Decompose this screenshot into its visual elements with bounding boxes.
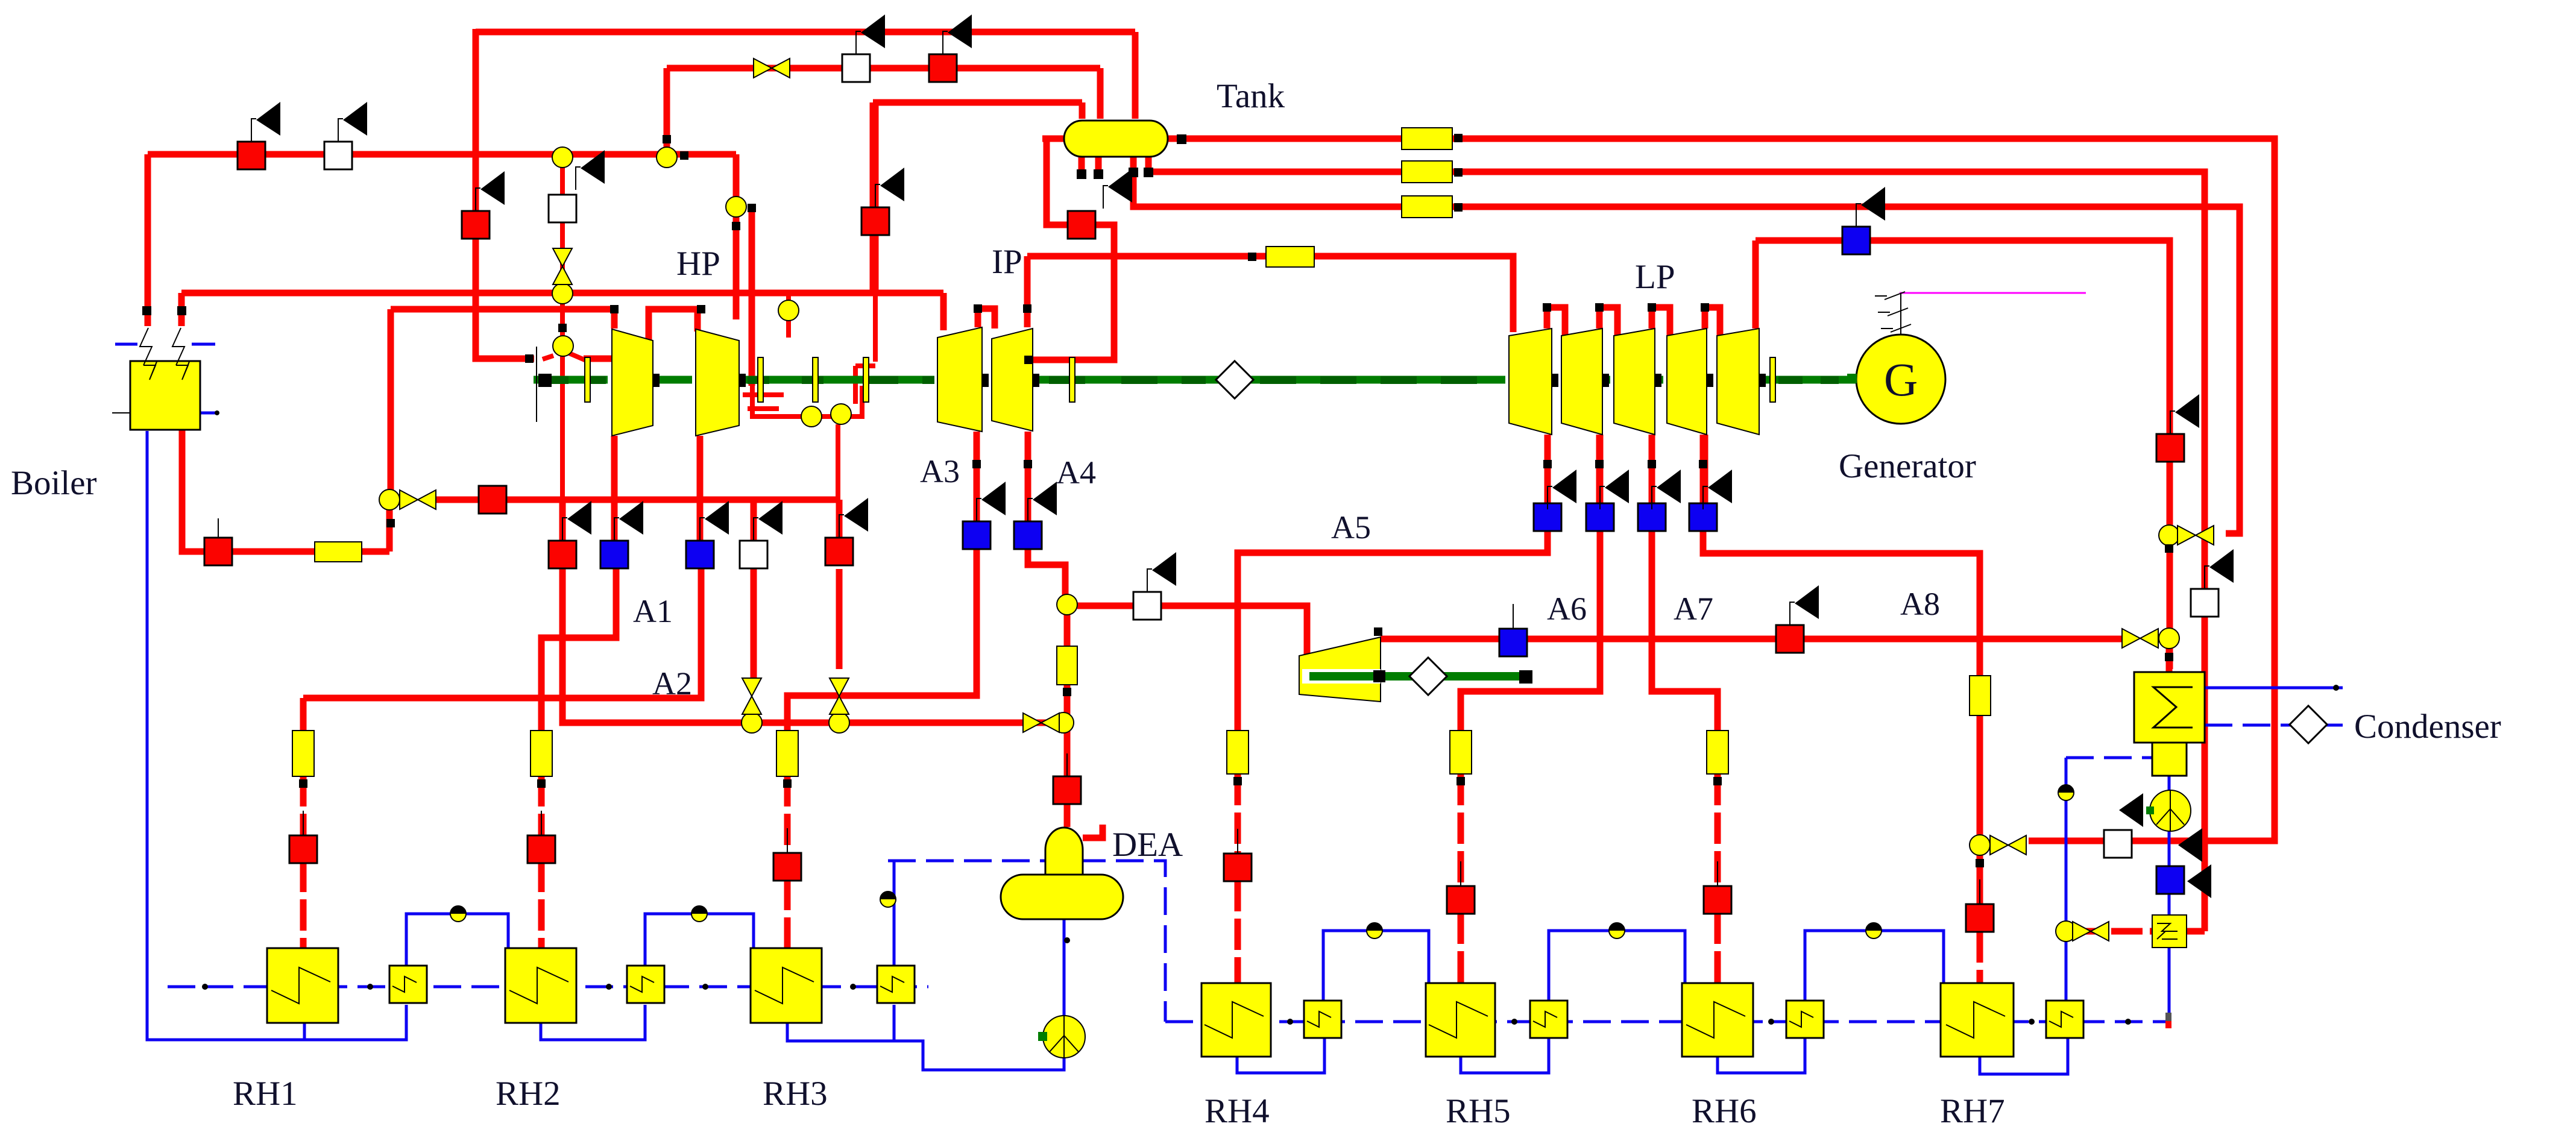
svg-text:RH7: RH7	[1940, 1092, 2005, 1130]
svg-text:RH4: RH4	[1205, 1092, 1270, 1130]
svg-text:RH5: RH5	[1446, 1092, 1511, 1130]
svg-text:Generator: Generator	[1839, 447, 1976, 485]
svg-text:A2: A2	[652, 665, 692, 702]
svg-text:Tank: Tank	[1217, 77, 1285, 115]
svg-text:RH1: RH1	[233, 1075, 298, 1113]
svg-text:DEA: DEA	[1112, 826, 1183, 864]
svg-text:HP: HP	[676, 245, 720, 283]
svg-text:A8: A8	[1900, 586, 1940, 622]
svg-text:A7: A7	[1674, 591, 1713, 627]
svg-text:LP: LP	[1635, 258, 1675, 296]
svg-text:A5: A5	[1331, 509, 1371, 545]
svg-text:G: G	[1884, 353, 1918, 406]
svg-text:A6: A6	[1547, 591, 1587, 627]
svg-text:IP: IP	[992, 243, 1022, 281]
svg-text:RH2: RH2	[496, 1075, 561, 1113]
svg-text:Boiler: Boiler	[11, 464, 96, 502]
svg-text:A3: A3	[920, 453, 960, 489]
svg-text:A4: A4	[1056, 454, 1096, 491]
svg-text:Condenser: Condenser	[2354, 708, 2501, 746]
svg-text:RH3: RH3	[763, 1075, 828, 1113]
svg-text:RH6: RH6	[1692, 1092, 1757, 1130]
svg-text:A1: A1	[633, 593, 673, 629]
